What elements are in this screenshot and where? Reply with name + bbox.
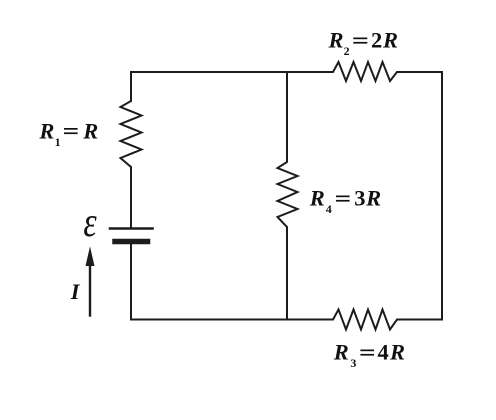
svg-text:2: 2: [344, 44, 350, 58]
svg-text:ε: ε: [83, 200, 96, 246]
svg-text:R: R: [328, 28, 344, 53]
svg-text:3: 3: [354, 186, 365, 211]
svg-text:R: R: [389, 340, 405, 365]
svg-text:R: R: [309, 186, 325, 211]
svg-text:R: R: [365, 186, 381, 211]
svg-text:1: 1: [55, 135, 61, 149]
svg-text:R: R: [82, 119, 98, 144]
svg-text:4: 4: [378, 340, 389, 365]
svg-text:R: R: [333, 340, 349, 365]
svg-text:2: 2: [371, 28, 382, 53]
svg-text:R: R: [38, 119, 54, 144]
svg-text:R: R: [382, 28, 398, 53]
svg-text:4: 4: [326, 202, 332, 216]
svg-text:I: I: [70, 279, 81, 304]
svg-text:3: 3: [350, 356, 356, 370]
